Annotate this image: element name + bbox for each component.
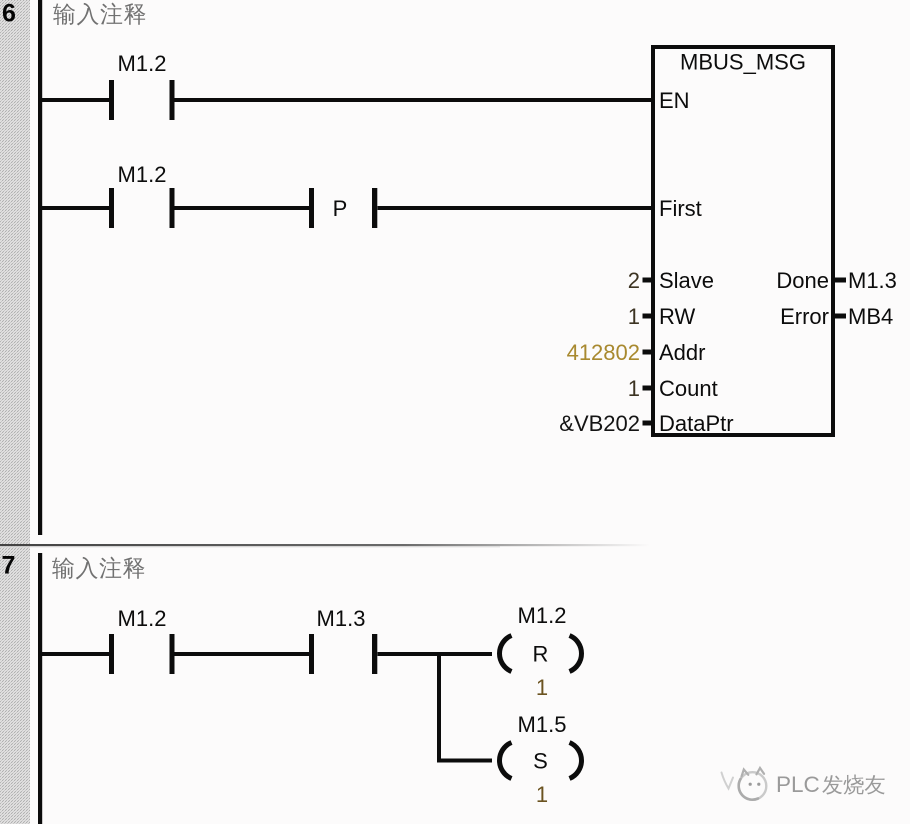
- wire: contact M1.2 to contact M1.3: [175, 652, 310, 656]
- positive edge contact P: [309, 188, 314, 228]
- network 7 comment 输入注释: [52, 557, 144, 580]
- svg-text:&VB202: &VB202: [559, 411, 640, 436]
- wire: rail to contact M1.2 (rung 1): [42, 98, 110, 102]
- svg-text:M1.3: M1.3: [317, 606, 366, 631]
- watermark logo icon (cat face): [722, 768, 767, 800]
- svg-text:RW: RW: [659, 304, 695, 329]
- stub: DataPtr input: [643, 421, 654, 426]
- svg-text:1: 1: [628, 376, 640, 401]
- svg-text:Count: Count: [659, 376, 718, 401]
- svg-text:DataPtr: DataPtr: [659, 411, 734, 436]
- network 6 comment 输入注释: [53, 3, 145, 26]
- stub: Addr input: [643, 350, 654, 355]
- svg-text:M1.2: M1.2: [118, 606, 167, 631]
- contact M1.2 (rung 2): [109, 188, 114, 228]
- svg-text:PLC: PLC: [776, 772, 820, 797]
- function block MBUS_MSG outline: [653, 47, 833, 435]
- svg-text:1: 1: [536, 782, 548, 807]
- svg-text:Error: Error: [780, 304, 829, 329]
- svg-text:1: 1: [628, 304, 640, 329]
- svg-text:P: P: [333, 196, 348, 221]
- contact M1.3: [309, 634, 314, 674]
- wire: contact M1.3 to coil R branch: [378, 652, 493, 656]
- svg-text:S: S: [533, 749, 548, 774]
- wire: contact P to MBUS_MSG First pin: [378, 206, 656, 210]
- left power rail (network 7): [38, 553, 42, 824]
- contact M1.2 (rung 1, EN input): [109, 80, 114, 120]
- coil M1.5 (S set): [500, 743, 582, 779]
- svg-text:Addr: Addr: [659, 340, 705, 365]
- svg-text:Done: Done: [776, 268, 829, 293]
- svg-text:M1.2: M1.2: [118, 51, 167, 76]
- contact M1.2 (network 7): [109, 634, 114, 674]
- svg-text:M1.2: M1.2: [118, 162, 167, 187]
- svg-text:M1.3: M1.3: [848, 268, 897, 293]
- left power rail (network 6): [38, 0, 42, 535]
- svg-text:MB4: MB4: [848, 304, 893, 329]
- svg-text:R: R: [533, 642, 549, 667]
- stub: Count input: [643, 386, 654, 391]
- wire: contact M1.2 to MBUS_MSG EN pin: [175, 98, 656, 102]
- svg-text:M1.5: M1.5: [518, 712, 567, 737]
- svg-text:M1.2: M1.2: [518, 603, 567, 628]
- network number gutter column: [0, 0, 30, 824]
- svg-text:412802: 412802: [567, 340, 640, 365]
- svg-text:MBUS_MSG: MBUS_MSG: [680, 50, 806, 75]
- coil M1.2 (R reset): [500, 636, 582, 672]
- svg-text:2: 2: [628, 268, 640, 293]
- svg-text:EN: EN: [659, 88, 690, 113]
- stub: Error output: [833, 314, 846, 319]
- svg-text:6: 6: [2, 0, 16, 28]
- svg-text:1: 1: [536, 675, 548, 700]
- network separator line: [0, 544, 650, 546]
- stub: Done output: [833, 278, 846, 283]
- branch wire down to coil S: [437, 652, 441, 763]
- wire: rail to contact M1.2 (rung 2): [42, 206, 110, 210]
- wire: rail to contact M1.2 (network 7): [42, 652, 110, 656]
- wire: contact M1.2 to contact P: [175, 206, 310, 210]
- svg-text:First: First: [659, 196, 702, 221]
- svg-text:Slave: Slave: [659, 268, 714, 293]
- stub: Slave input: [643, 278, 654, 283]
- stub: RW input: [643, 314, 654, 319]
- svg-text:7: 7: [2, 552, 16, 580]
